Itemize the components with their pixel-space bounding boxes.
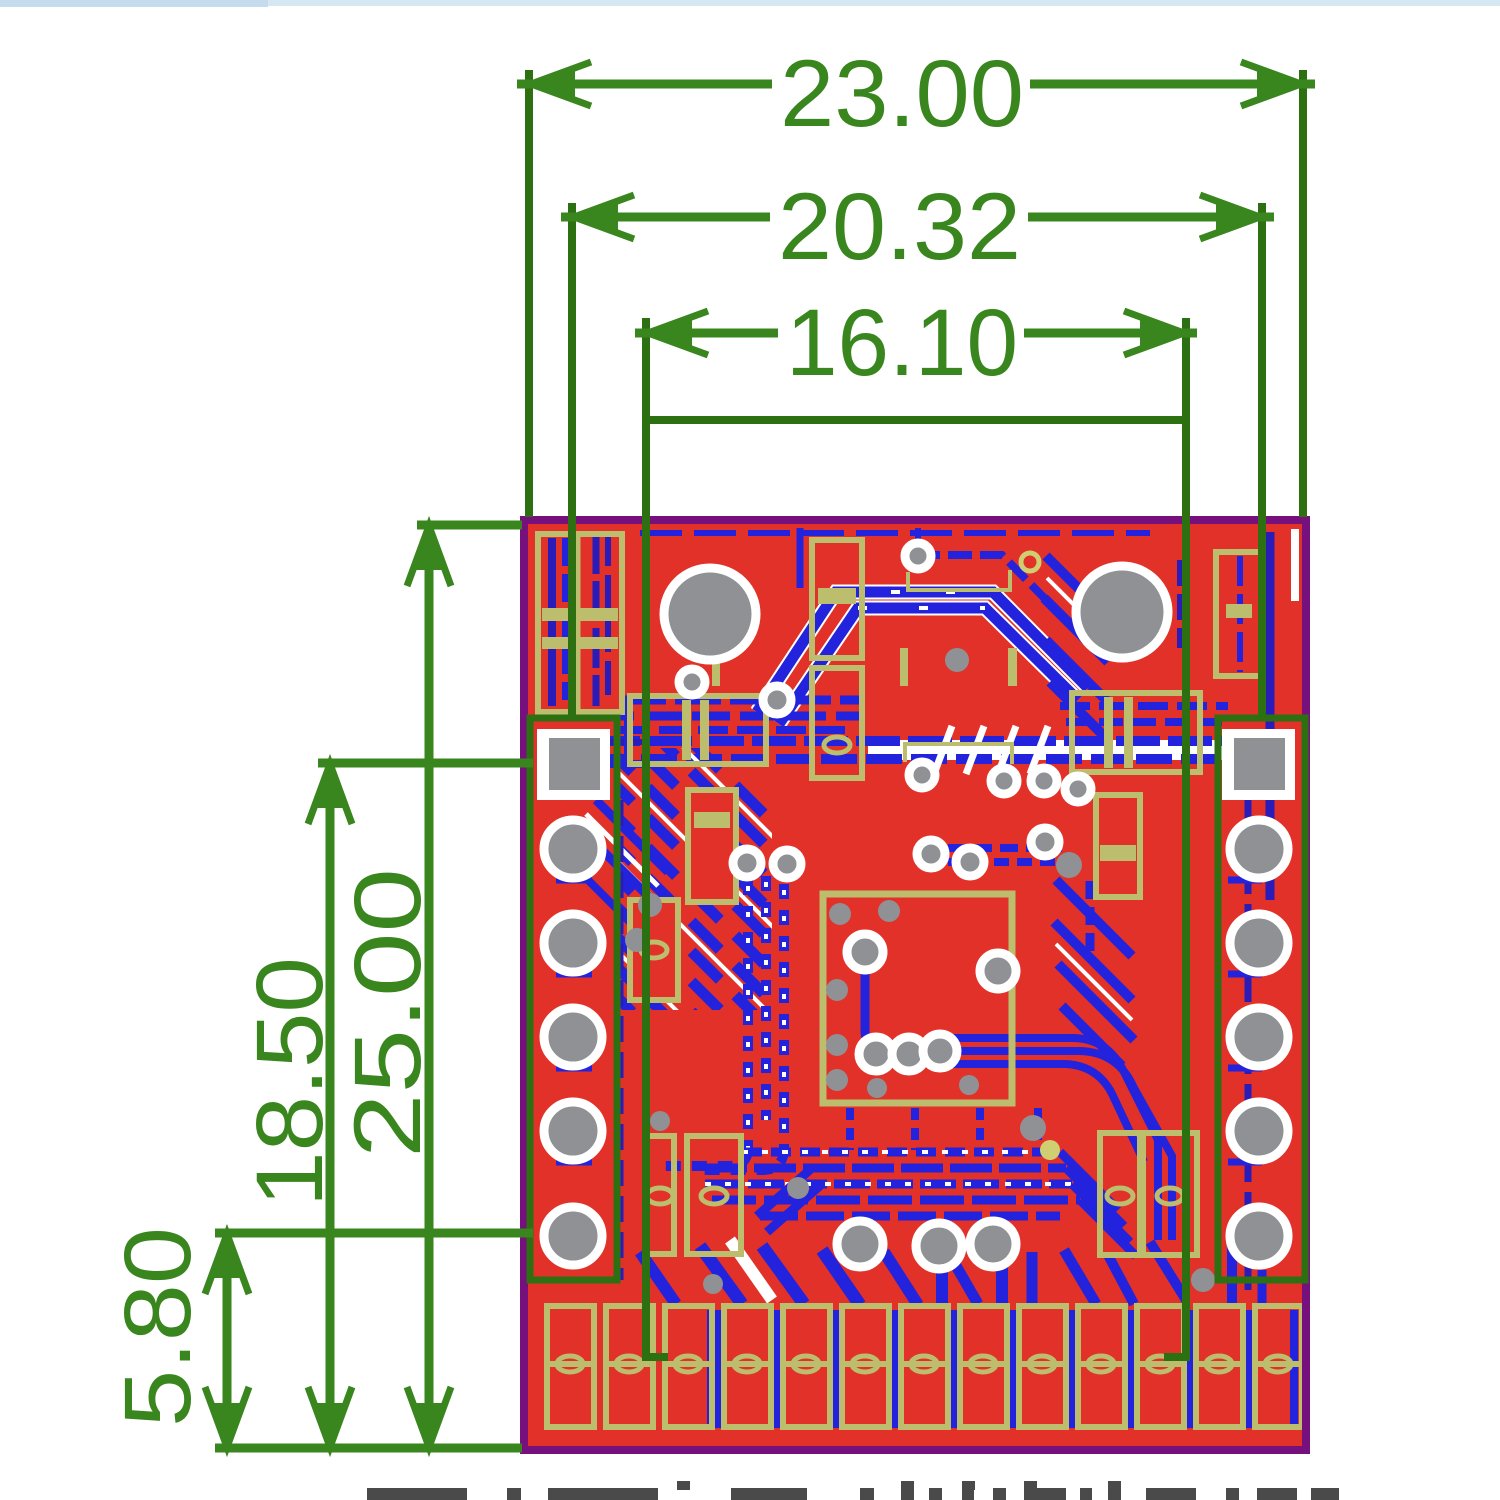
svg-text:18.50: 18.50: [237, 957, 343, 1207]
svg-text:25.00: 25.00: [335, 868, 441, 1158]
svg-text:23.00: 23.00: [780, 41, 1024, 147]
svg-text:5.80: 5.80: [105, 1227, 211, 1427]
svg-text:20.32: 20.32: [778, 174, 1021, 280]
svg-text:16.10: 16.10: [786, 290, 1018, 396]
